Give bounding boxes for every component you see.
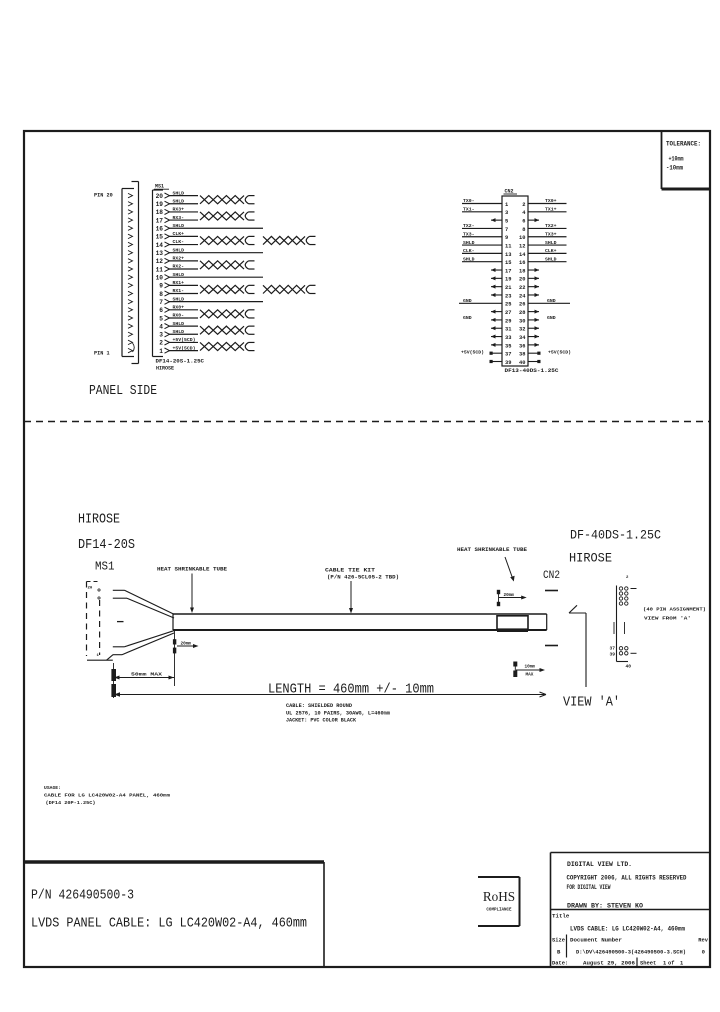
net label +5V(5CD) left bbox=[461, 350, 484, 356]
svg-text:RX0-: RX0- bbox=[173, 313, 185, 319]
RoHS text bbox=[483, 889, 515, 913]
svg-text:32: 32 bbox=[519, 327, 525, 333]
connector housing right bracket bbox=[132, 182, 139, 364]
wire pin 18 RX3+ bbox=[169, 211, 199, 213]
part label DF14-20S bbox=[78, 538, 135, 553]
polarization notch bbox=[133, 343, 135, 352]
connector part number DF14-20S-1.25C bbox=[156, 359, 205, 365]
svg-text:18: 18 bbox=[156, 209, 164, 216]
svg-text:20: 20 bbox=[88, 587, 93, 591]
heat shrink sleeve at CN2 end bbox=[497, 616, 528, 631]
GND stub pin 27 bbox=[463, 310, 502, 322]
size/doc header bbox=[552, 938, 709, 944]
svg-text:RX3-: RX3- bbox=[173, 215, 185, 221]
svg-text:CLK-: CLK- bbox=[173, 239, 185, 245]
svg-text:JACKET: PVC COLOR BLACK: JACKET: PVC COLOR BLACK bbox=[286, 717, 356, 723]
usage note bbox=[44, 785, 170, 806]
svg-text:TX0-: TX0- bbox=[463, 198, 475, 204]
net label SHLD pin 20 bbox=[173, 190, 185, 196]
+5V stub pin 37 bbox=[490, 352, 503, 355]
svg-text:SHLD: SHLD bbox=[173, 329, 185, 335]
svg-text:RoHS: RoHS bbox=[483, 889, 515, 904]
net label SHLD pin 19 bbox=[173, 198, 185, 204]
svg-text:19: 19 bbox=[156, 201, 164, 208]
svg-text:7: 7 bbox=[505, 227, 508, 233]
CN2 pin numbers 7/8 bbox=[505, 227, 526, 233]
svg-text:TOLERANCE:: TOLERANCE: bbox=[666, 141, 701, 148]
net label TX0+ bbox=[545, 198, 557, 204]
svg-text:CLK+: CLK+ bbox=[173, 231, 185, 237]
wire pin 4 SHLD bbox=[169, 325, 199, 327]
svg-text:HIROSE: HIROSE bbox=[569, 551, 612, 566]
CN2 pin numbers 19/20 bbox=[505, 277, 526, 283]
net label TX1- bbox=[463, 207, 475, 213]
svg-text:6: 6 bbox=[159, 307, 163, 314]
CN2 pin numbers 13/14 bbox=[505, 252, 526, 258]
svg-text:TX1-: TX1- bbox=[463, 207, 475, 213]
wire pin 5 RX0- bbox=[169, 317, 199, 319]
svg-text:29: 29 bbox=[505, 318, 511, 324]
svg-text:SHLD: SHLD bbox=[173, 223, 185, 229]
svg-text:25: 25 bbox=[505, 302, 511, 308]
svg-text:(40 PIN ASSIGNMENT): (40 PIN ASSIGNMENT) bbox=[643, 607, 706, 613]
CN2 pin numbers 15/16 bbox=[505, 260, 526, 266]
wire pin 2 +5V(5CD) bbox=[169, 341, 199, 343]
svg-text:DF14-20S-1.25C: DF14-20S-1.25C bbox=[156, 359, 205, 365]
svg-text:17: 17 bbox=[156, 217, 164, 224]
CN2 pin numbers 11/12 bbox=[505, 243, 526, 249]
pin 15 number and contact bbox=[156, 234, 170, 241]
connector part number DF13-40DS-1.25C bbox=[505, 368, 559, 374]
svg-text:+5V(5CD): +5V(5CD) bbox=[173, 337, 196, 343]
svg-text:MS1: MS1 bbox=[155, 184, 164, 190]
+5V stub pin 40 bbox=[528, 360, 541, 363]
svg-text:12: 12 bbox=[519, 243, 525, 249]
drawing frame border bbox=[24, 131, 710, 967]
wire CN2 pin 9 TX3- bbox=[462, 236, 502, 238]
connector MS1 body bracket bbox=[153, 190, 164, 357]
cable body bbox=[173, 614, 547, 630]
svg-text:CLK+: CLK+ bbox=[545, 248, 557, 254]
maker label HIROSE bbox=[156, 366, 174, 372]
net label SHLD bbox=[545, 256, 557, 262]
svg-text:5: 5 bbox=[505, 219, 508, 225]
CN2 position dashes bbox=[545, 591, 558, 646]
size/doc values bbox=[557, 949, 706, 956]
svg-text:SHLD: SHLD bbox=[173, 296, 185, 302]
net label TX3+ bbox=[545, 231, 557, 237]
pin 6 number and contact bbox=[159, 307, 169, 314]
svg-text:TX3-: TX3- bbox=[463, 231, 475, 237]
net label SHLD pin 10 bbox=[173, 272, 185, 278]
net label TX2- bbox=[463, 223, 475, 229]
svg-text:4: 4 bbox=[159, 323, 163, 330]
svg-text:LVDS PANEL CABLE: LG LC420W02-: LVDS PANEL CABLE: LG LC420W02-A4, 460mm bbox=[31, 916, 307, 932]
wire CN2 pin 16 SHLD bbox=[528, 261, 567, 263]
svg-text:34: 34 bbox=[519, 335, 526, 341]
pin 1 number and contact bbox=[159, 348, 169, 355]
svg-text:COMPLIANCE: COMPLIANCE bbox=[486, 909, 512, 913]
callout HEAT SHRINKABLE TUBE right bbox=[457, 547, 527, 582]
svg-text:Rev: Rev bbox=[698, 938, 708, 944]
pin 10 number and contact bbox=[156, 274, 170, 281]
twisted pair pins 9/8 bbox=[200, 285, 255, 293]
net label +5V(5CD) right bbox=[548, 350, 571, 356]
svg-text:SHLD: SHLD bbox=[463, 256, 475, 262]
svg-text:USAGE:: USAGE: bbox=[44, 785, 61, 791]
svg-text:RX1+: RX1+ bbox=[173, 280, 185, 286]
svg-text:38: 38 bbox=[519, 352, 525, 358]
svg-text:D:\DV\426490500-3(426490500-3.: D:\DV\426490500-3(426490500-3.SCH) bbox=[576, 950, 686, 956]
svg-text:31: 31 bbox=[505, 327, 511, 333]
no-connect arrows row pins 5/6 bbox=[491, 218, 539, 222]
net label RX2+ pin 12 bbox=[173, 256, 185, 262]
CN2 pin numbers 33/34 bbox=[505, 335, 526, 341]
svg-text:39: 39 bbox=[609, 652, 615, 658]
GND stub pin 28 bbox=[528, 310, 556, 322]
pin 19 number and contact bbox=[156, 201, 170, 208]
svg-text:VIEW 'A': VIEW 'A' bbox=[563, 695, 620, 711]
MS1 pin 1 mark bbox=[97, 654, 100, 658]
svg-text:GND: GND bbox=[463, 315, 472, 321]
svg-text:TX1+: TX1+ bbox=[545, 207, 557, 213]
svg-text:13: 13 bbox=[156, 250, 164, 257]
svg-text:UL 2576, 10 PAIRS, 30AWG, L=46: UL 2576, 10 PAIRS, 30AWG, L=460mm bbox=[286, 710, 390, 716]
svg-text:19: 19 bbox=[505, 277, 511, 283]
view A pin numbers bbox=[609, 576, 631, 670]
svg-text:SHLD: SHLD bbox=[173, 247, 185, 253]
svg-text:20mm: 20mm bbox=[181, 642, 192, 647]
pin 2 number and contact bbox=[159, 340, 169, 347]
net label TX3- bbox=[463, 231, 475, 237]
cable description text bbox=[31, 916, 307, 932]
svg-text:40: 40 bbox=[626, 664, 632, 670]
svg-text:1: 1 bbox=[663, 961, 666, 967]
svg-text:10: 10 bbox=[156, 274, 164, 281]
svg-text:24: 24 bbox=[519, 293, 526, 299]
twisted pair pins 15/14 bbox=[200, 236, 255, 244]
svg-text:12: 12 bbox=[156, 258, 164, 265]
no-connect arrows row pins 35/36 bbox=[491, 343, 539, 347]
CN2 pin numbers 3/4 bbox=[505, 210, 526, 216]
wire CN2 pin 15 SHLD bbox=[462, 261, 502, 263]
pin 18 number and contact bbox=[156, 209, 170, 216]
svg-text:1: 1 bbox=[505, 202, 508, 208]
net label SHLD pin 16 bbox=[173, 223, 185, 229]
wire CN2 pin 12 SHLD bbox=[528, 244, 567, 246]
pin 7 number and contact bbox=[159, 299, 169, 306]
svg-text:PIN 1: PIN 1 bbox=[94, 351, 110, 357]
reference MS1 bbox=[95, 560, 115, 574]
svg-text:RX1-: RX1- bbox=[173, 288, 185, 294]
svg-text:14: 14 bbox=[156, 242, 164, 249]
cable spec note bbox=[286, 703, 390, 723]
svg-text:HEAT SHRINKABLE TUBE: HEAT SHRINKABLE TUBE bbox=[457, 547, 527, 553]
net label SHLD pin 4 bbox=[173, 321, 185, 327]
svg-text:(DF14 20P-1.25C): (DF14 20P-1.25C) bbox=[46, 800, 96, 806]
dimension LENGTH = 460mm +/- 10mm bbox=[114, 682, 546, 698]
wire pin 8 RX1- bbox=[169, 292, 199, 294]
wire pin 20 SHLD bbox=[169, 195, 199, 197]
svg-text:28: 28 bbox=[519, 310, 525, 316]
svg-text:DF13-40DS-1.25C: DF13-40DS-1.25C bbox=[505, 368, 559, 374]
svg-text:11: 11 bbox=[156, 266, 164, 273]
twisted pair continuation pins 15/14 bbox=[263, 236, 316, 244]
pin 5 number and contact bbox=[159, 315, 169, 322]
wire pin 12 RX2+ bbox=[169, 260, 199, 262]
svg-text:16: 16 bbox=[156, 226, 164, 233]
svg-text:17: 17 bbox=[505, 268, 511, 274]
svg-text:GND: GND bbox=[463, 298, 472, 304]
title block lines bbox=[551, 853, 710, 967]
callout HEAT SHRINKABLE TUBE left bbox=[157, 567, 227, 614]
wire CN2 pin 25 GND bbox=[459, 298, 502, 304]
view A leader bbox=[569, 605, 586, 687]
part number box bbox=[24, 862, 324, 966]
svg-text:35: 35 bbox=[505, 343, 511, 349]
svg-text:CABLE TIE KIT: CABLE TIE KIT bbox=[325, 568, 375, 574]
svg-text:PANEL SIDE: PANEL SIDE bbox=[89, 383, 157, 399]
svg-text:+5V(5CD): +5V(5CD) bbox=[173, 345, 196, 351]
twisted pair continuation pins 9/8 bbox=[263, 285, 316, 293]
svg-text:20: 20 bbox=[156, 193, 164, 200]
svg-text:TX0+: TX0+ bbox=[545, 198, 557, 204]
cable fan-out wires bbox=[113, 590, 174, 654]
pin 14 number and contact bbox=[156, 242, 170, 249]
pin 12 number and contact bbox=[156, 258, 170, 265]
svg-text:33: 33 bbox=[505, 335, 511, 341]
svg-text:3: 3 bbox=[505, 210, 508, 216]
svg-text:DF14-20S: DF14-20S bbox=[78, 538, 135, 553]
svg-text:2: 2 bbox=[159, 340, 163, 347]
svg-text:SHLD: SHLD bbox=[545, 240, 557, 246]
pin 11 number and contact bbox=[156, 266, 170, 273]
net label SHLD bbox=[545, 240, 557, 246]
svg-text:RX0+: RX0+ bbox=[173, 305, 185, 311]
svg-text:Document Number: Document Number bbox=[570, 938, 622, 944]
svg-text:16: 16 bbox=[519, 260, 525, 266]
svg-text:GND: GND bbox=[547, 315, 556, 321]
twisted pair pins 2/1 bbox=[200, 342, 255, 350]
svg-text:6: 6 bbox=[522, 219, 525, 225]
net label CLK- pin 14 bbox=[173, 239, 185, 245]
svg-text:Title: Title bbox=[552, 913, 570, 920]
svg-text:MAX: MAX bbox=[526, 673, 534, 678]
maker label HIROSE right bbox=[569, 551, 612, 566]
svg-text:SHLD: SHLD bbox=[173, 198, 185, 204]
MS1 bottom closing line bbox=[87, 655, 113, 661]
no-connect arrows row pins 31/32 bbox=[491, 326, 539, 330]
MS1 mid dash bbox=[117, 621, 124, 623]
twisted pair pins 4/3 bbox=[200, 326, 255, 334]
svg-text:RX2+: RX2+ bbox=[173, 256, 185, 262]
no-connect arrows row pins 21/22 bbox=[491, 285, 539, 289]
connector MS1 reference label bbox=[154, 184, 169, 190]
net label RX0- pin 5 bbox=[173, 313, 185, 319]
net label CLK- bbox=[463, 248, 475, 254]
svg-text:SHLD: SHLD bbox=[545, 256, 557, 262]
wire pin 3 SHLD bbox=[169, 333, 199, 335]
wire pin 9 RX1+ bbox=[169, 284, 199, 286]
net label +5V(5CD) pin 2 bbox=[173, 337, 196, 343]
wire CN2 pin 13 CLK- bbox=[462, 252, 502, 254]
dimension 10mm MAX near cable end bbox=[513, 662, 545, 678]
CN2 pin numbers 23/24 bbox=[505, 293, 526, 299]
twisted pair pins 18/17 bbox=[200, 212, 255, 220]
svg-text:CLK-: CLK- bbox=[463, 248, 475, 254]
view A pin face detail bbox=[614, 586, 637, 662]
pin 8 number and contact bbox=[159, 291, 169, 298]
svg-text:23: 23 bbox=[505, 293, 511, 299]
connector contacts chevrons bbox=[128, 193, 133, 352]
net label +5V(5CD) pin 1 bbox=[173, 345, 196, 351]
svg-text:40: 40 bbox=[519, 360, 525, 366]
no-connect arrows row pins 23/24 bbox=[491, 293, 539, 297]
svg-text:8: 8 bbox=[522, 227, 525, 233]
pin 20 number and contact bbox=[156, 193, 170, 200]
wire pin 15 CLK+ bbox=[169, 235, 199, 237]
svg-text:P/N 426490500-3: P/N 426490500-3 bbox=[31, 888, 134, 904]
connector CN2 reference label bbox=[504, 189, 518, 195]
wire pin 11 RX2- bbox=[169, 268, 199, 270]
net label RX3- pin 17 bbox=[173, 215, 185, 221]
net label SHLD bbox=[463, 256, 475, 262]
CN2 pin numbers 9/10 bbox=[505, 235, 526, 241]
svg-text:CABLE FOR LG LC420W02-A4 PANEL: CABLE FOR LG LC420W02-A4 PANEL, 460mm bbox=[44, 793, 170, 799]
CN2 pin numbers 37/38 bbox=[505, 352, 526, 358]
svg-text:13: 13 bbox=[505, 252, 511, 258]
svg-text:SHLD: SHLD bbox=[173, 321, 185, 327]
CN2 pin numbers 25/26 bbox=[505, 302, 526, 308]
svg-text:15: 15 bbox=[505, 260, 511, 266]
svg-text:HIROSE: HIROSE bbox=[156, 366, 174, 372]
connector MS1 outline dashed bbox=[87, 582, 100, 657]
twisted pair pins 12/11 bbox=[200, 261, 255, 269]
wire CN2 pin 3 TX1- bbox=[462, 211, 502, 213]
wire CN2 pin 7 TX2- bbox=[462, 227, 502, 229]
drawn by line bbox=[567, 903, 643, 910]
+5V stub pin 38 bbox=[528, 352, 541, 355]
pin 4 number and contact bbox=[159, 323, 169, 330]
CN2 pin numbers 31/32 bbox=[505, 327, 526, 333]
dimension 20mm at cable start bbox=[173, 631, 199, 687]
svg-text:CN2: CN2 bbox=[543, 570, 560, 582]
svg-text:10: 10 bbox=[519, 235, 525, 241]
svg-text:+5V(5CD): +5V(5CD) bbox=[461, 350, 484, 356]
net label RX0+ pin 6 bbox=[173, 305, 185, 311]
svg-text:10mm: 10mm bbox=[525, 664, 536, 669]
no-connect arrows row pins 19/20 bbox=[491, 276, 539, 280]
net label RX3+ pin 18 bbox=[173, 207, 185, 213]
svg-text:Sheet: Sheet bbox=[640, 961, 656, 967]
svg-text:(P/N 426-5CL05-2 TBD): (P/N 426-5CL05-2 TBD) bbox=[327, 575, 399, 581]
svg-text:SHLD: SHLD bbox=[173, 272, 185, 278]
svg-text:7: 7 bbox=[159, 299, 163, 306]
wire CN2 pin 1 TX0- bbox=[462, 203, 502, 205]
net label TX1+ bbox=[545, 207, 557, 213]
net label SHLD pin 13 bbox=[173, 247, 185, 253]
CN2 pin numbers 29/30 bbox=[505, 318, 526, 324]
svg-text:HEAT SHRINKABLE TUBE: HEAT SHRINKABLE TUBE bbox=[157, 567, 227, 573]
wire CN2 pin 2 TX0+ bbox=[528, 203, 567, 205]
wire CN2 pin 8 TX2+ bbox=[528, 227, 567, 229]
CN2 pin numbers 21/22 bbox=[505, 285, 526, 291]
svg-text:9: 9 bbox=[505, 235, 508, 241]
callout CABLE TIE KIT bbox=[325, 568, 399, 614]
connector CN2 body bbox=[502, 196, 528, 366]
svg-text:+10mm: +10mm bbox=[669, 156, 684, 163]
svg-text:11: 11 bbox=[505, 243, 511, 249]
svg-text:VIEW FROM 'A': VIEW FROM 'A' bbox=[644, 616, 691, 622]
net label CLK+ bbox=[545, 248, 557, 254]
svg-text:SHLD: SHLD bbox=[173, 190, 185, 196]
svg-text:SHLD: SHLD bbox=[463, 240, 475, 246]
wire pin 7 SHLD bbox=[169, 301, 264, 303]
svg-text:27: 27 bbox=[505, 310, 511, 316]
svg-text:36: 36 bbox=[519, 343, 525, 349]
CN2 pin numbers 5/6 bbox=[505, 219, 526, 225]
svg-text:LVDS CABLE: LG LC420W02-A4, 46: LVDS CABLE: LG LC420W02-A4, 460mm bbox=[570, 926, 685, 933]
title row bbox=[552, 913, 570, 920]
dashed section divider bbox=[24, 421, 710, 423]
wire CN2 pin 11 SHLD bbox=[462, 244, 502, 246]
net label TX2+ bbox=[545, 223, 557, 229]
wire pin 13 SHLD bbox=[169, 252, 264, 254]
wire CN2 pin 10 TX3+ bbox=[528, 236, 567, 238]
net label TX0- bbox=[463, 198, 475, 204]
twisted pair pins 20/19 bbox=[200, 196, 255, 204]
pin 16 number and contact bbox=[156, 226, 170, 233]
svg-text:COPYRIGHT 2006, ALL RIGHTS RES: COPYRIGHT 2006, ALL RIGHTS RESERVED bbox=[567, 875, 687, 882]
svg-text:37: 37 bbox=[505, 352, 511, 358]
net label CLK+ pin 15 bbox=[173, 231, 185, 237]
pin 3 number and contact bbox=[159, 332, 169, 339]
svg-text:21: 21 bbox=[505, 285, 511, 291]
copyright line bbox=[567, 875, 687, 882]
svg-text:15: 15 bbox=[156, 234, 164, 241]
svg-text:37: 37 bbox=[609, 646, 615, 652]
wire pin 16 SHLD bbox=[169, 227, 264, 229]
svg-text:9: 9 bbox=[159, 283, 163, 290]
svg-text:26: 26 bbox=[519, 302, 525, 308]
svg-text:39: 39 bbox=[505, 360, 511, 366]
RoHS compliance box bbox=[478, 877, 520, 926]
svg-text:20mm: 20mm bbox=[504, 593, 515, 598]
view A caption bbox=[643, 607, 706, 622]
company name bbox=[567, 861, 632, 868]
CN2 pin numbers 17/18 bbox=[505, 268, 526, 274]
pin 9 number and contact bbox=[159, 283, 169, 290]
part label DF-40DS-1.25C bbox=[570, 528, 661, 543]
reference CN2 bbox=[543, 570, 560, 582]
svg-text:GND: GND bbox=[547, 298, 556, 304]
company line 2 bbox=[567, 884, 611, 891]
wire pin 17 RX3- bbox=[169, 219, 199, 221]
no-connect arrows row pins 33/34 bbox=[491, 335, 539, 339]
svg-text:of: of bbox=[668, 961, 674, 967]
svg-text:-10mm: -10mm bbox=[666, 165, 683, 172]
section title PANEL SIDE bbox=[89, 383, 157, 399]
svg-text:1: 1 bbox=[680, 961, 683, 967]
maker label HIROSE left bbox=[78, 513, 120, 528]
net label RX1- pin 8 bbox=[173, 288, 185, 294]
wire pin 19 SHLD bbox=[169, 203, 199, 205]
svg-text:DRAWN BY: STEVEN KO: DRAWN BY: STEVEN KO bbox=[567, 903, 643, 910]
svg-text:50mm MAX: 50mm MAX bbox=[131, 673, 163, 678]
svg-text:22: 22 bbox=[519, 285, 525, 291]
wire pin 14 CLK- bbox=[169, 244, 199, 246]
dimension 50mm MAX bbox=[111, 663, 174, 698]
